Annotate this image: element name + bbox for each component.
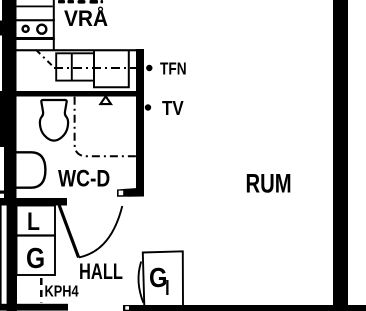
wall bottom left segment xyxy=(0,304,68,311)
svg-text:HALL: HALL xyxy=(79,260,123,285)
svg-text:l: l xyxy=(165,277,170,300)
stove top edge xyxy=(17,19,55,21)
coat rack KPH dashed line xyxy=(40,278,43,303)
sprinkler triangle xyxy=(100,96,111,104)
wall hall top xyxy=(0,198,67,206)
wall left lower bar xyxy=(7,206,17,311)
svg-text:TV: TV xyxy=(162,97,184,120)
vent dash-dot horizontal xyxy=(54,67,136,69)
counter right cell xyxy=(94,51,129,87)
shower dash-dot line xyxy=(75,97,136,157)
svg-text:RUM: RUM xyxy=(246,169,292,200)
WC door swing arc xyxy=(79,206,123,258)
kitchen unit shelf line xyxy=(17,6,53,8)
svg-text:KPH4: KPH4 xyxy=(45,283,79,301)
jamb notch entrance door xyxy=(125,306,129,310)
wash basin xyxy=(17,152,46,187)
closet G2 box xyxy=(143,251,183,306)
outlet TV dot xyxy=(145,104,151,110)
wall left connector xyxy=(0,191,4,194)
wall stub at WC door right jamb xyxy=(117,188,144,197)
kitchen unit right edge xyxy=(53,0,55,50)
wall left WC lower xyxy=(4,147,17,198)
WC door leaf xyxy=(59,205,78,257)
closet L and G box xyxy=(17,206,56,276)
outlet TFN dot xyxy=(146,65,152,71)
svg-text:L: L xyxy=(27,207,40,235)
wall left exterior thin line lower xyxy=(0,206,2,306)
wall right of kitchenette and WC xyxy=(136,49,144,196)
svg-text:WC-D: WC-D xyxy=(58,164,110,192)
toilet xyxy=(40,100,68,141)
wall left WC solid upper xyxy=(0,91,17,147)
stove small burner xyxy=(23,26,29,32)
vent dash-dot diagonal xyxy=(36,50,54,67)
cut-off text fragments top xyxy=(58,0,103,4)
wall left exterior upper bar xyxy=(2,0,17,91)
wall left nub beside stove xyxy=(0,21,3,36)
sink box xyxy=(56,53,94,80)
svg-text:VRÅ: VRÅ xyxy=(64,4,108,31)
wall kitchen-WC divider band xyxy=(0,91,144,97)
closet divider xyxy=(17,234,56,236)
counter top line A xyxy=(17,49,145,51)
svg-text:G: G xyxy=(26,242,45,274)
stove large burner xyxy=(37,25,46,34)
stove bottom edge xyxy=(17,37,55,40)
wall bottom right segment xyxy=(123,305,366,311)
svg-text:TFN: TFN xyxy=(160,60,187,79)
sink divider xyxy=(71,53,73,80)
closet G2 door arc xyxy=(138,262,143,304)
jamb notch WC door xyxy=(119,191,124,196)
wall right exterior xyxy=(333,0,348,311)
